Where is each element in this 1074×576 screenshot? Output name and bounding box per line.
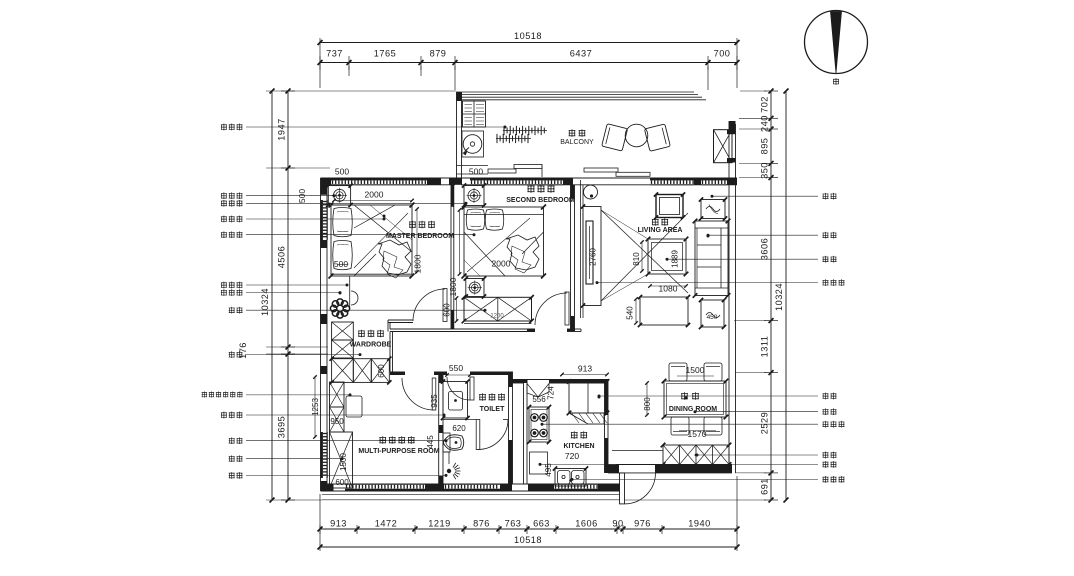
svg-text:1219: 1219 bbox=[428, 519, 450, 529]
svg-text:500: 500 bbox=[297, 189, 307, 203]
svg-text:KITCHEN: KITCHEN bbox=[563, 443, 594, 450]
svg-text:1800: 1800 bbox=[448, 277, 458, 296]
svg-text:1765: 1765 bbox=[374, 49, 396, 59]
svg-text:600: 600 bbox=[377, 364, 386, 378]
svg-text:737: 737 bbox=[326, 49, 343, 59]
svg-text:90: 90 bbox=[612, 519, 623, 529]
svg-text:663: 663 bbox=[533, 519, 550, 529]
svg-text:2760: 2760 bbox=[589, 248, 598, 266]
svg-text:2529: 2529 bbox=[760, 412, 770, 434]
svg-text:BALCONY: BALCONY bbox=[560, 139, 594, 146]
svg-text:691: 691 bbox=[760, 478, 770, 495]
svg-text:550: 550 bbox=[449, 363, 463, 373]
svg-text:879: 879 bbox=[430, 49, 447, 59]
svg-text:540: 540 bbox=[626, 306, 635, 320]
svg-text:1889: 1889 bbox=[671, 250, 680, 268]
svg-text:500: 500 bbox=[469, 167, 483, 177]
svg-text:1311: 1311 bbox=[760, 336, 770, 358]
svg-text:3695: 3695 bbox=[277, 416, 287, 438]
svg-text:500: 500 bbox=[334, 259, 348, 269]
svg-text:600: 600 bbox=[443, 303, 452, 317]
svg-text:976: 976 bbox=[634, 519, 651, 529]
svg-text:4506: 4506 bbox=[277, 246, 287, 268]
svg-text:724: 724 bbox=[547, 386, 556, 400]
svg-text:1200: 1200 bbox=[490, 314, 504, 320]
svg-text:810: 810 bbox=[632, 252, 641, 266]
svg-text:600: 600 bbox=[335, 478, 349, 487]
svg-text:TOILET: TOILET bbox=[480, 406, 505, 413]
svg-text:950: 950 bbox=[330, 417, 344, 426]
svg-text:10324: 10324 bbox=[260, 288, 270, 316]
svg-text:WARDROBE: WARDROBE bbox=[350, 342, 392, 349]
svg-text:3606: 3606 bbox=[760, 238, 770, 260]
svg-text:1253: 1253 bbox=[311, 398, 320, 416]
svg-text:1472: 1472 bbox=[375, 519, 397, 529]
svg-text:445: 445 bbox=[426, 435, 435, 449]
svg-text:720: 720 bbox=[565, 451, 579, 461]
svg-text:LIVING AREA: LIVING AREA bbox=[638, 227, 683, 234]
svg-text:1500: 1500 bbox=[339, 453, 348, 471]
svg-text:1940: 1940 bbox=[688, 519, 710, 529]
svg-text:10518: 10518 bbox=[514, 535, 542, 545]
svg-text:895: 895 bbox=[760, 138, 770, 155]
svg-text:800: 800 bbox=[643, 397, 652, 411]
svg-text:500: 500 bbox=[335, 167, 349, 177]
svg-text:SECOND BEDROOM: SECOND BEDROOM bbox=[506, 197, 575, 204]
svg-text:350: 350 bbox=[760, 162, 770, 179]
svg-text:6437: 6437 bbox=[570, 49, 592, 59]
svg-text:700: 700 bbox=[714, 49, 731, 59]
svg-text:240: 240 bbox=[760, 115, 770, 132]
svg-text:913: 913 bbox=[330, 519, 347, 529]
svg-text:10518: 10518 bbox=[514, 31, 542, 41]
svg-text:1500: 1500 bbox=[686, 365, 705, 375]
svg-text:935: 935 bbox=[430, 394, 439, 408]
svg-text:620: 620 bbox=[452, 424, 466, 433]
svg-text:MASTER BEDROOM: MASTER BEDROOM bbox=[386, 233, 454, 240]
svg-text:702: 702 bbox=[760, 96, 770, 113]
svg-text:10324: 10324 bbox=[774, 283, 784, 311]
svg-text:913: 913 bbox=[578, 364, 592, 374]
svg-text:450: 450 bbox=[707, 314, 718, 321]
svg-text:495: 495 bbox=[544, 463, 553, 477]
svg-text:1080: 1080 bbox=[659, 284, 678, 294]
svg-text:1947: 1947 bbox=[277, 118, 287, 140]
svg-text:876: 876 bbox=[473, 519, 490, 529]
svg-text:1606: 1606 bbox=[575, 519, 597, 529]
svg-text:2000: 2000 bbox=[492, 259, 511, 269]
svg-text:2000: 2000 bbox=[365, 190, 384, 200]
svg-text:763: 763 bbox=[505, 519, 522, 529]
svg-text:DINING ROOM: DINING ROOM bbox=[669, 406, 717, 413]
svg-text:556: 556 bbox=[532, 395, 546, 404]
